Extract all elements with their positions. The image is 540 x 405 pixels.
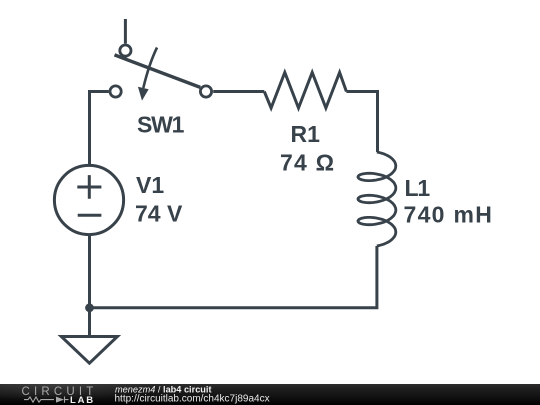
svg-text:74 V: 74 V: [135, 201, 183, 227]
voltage source V1 circle: [54, 165, 123, 234]
wire right terminal to resistor: [213, 90, 264, 93]
ground triangle: [61, 337, 117, 364]
svg-text:V1: V1: [136, 172, 164, 198]
svg-text:LAB: LAB: [70, 395, 95, 405]
V1 minus sign: [78, 214, 102, 217]
wire node to ground symbol: [88, 308, 91, 337]
switch SW1 motion arrow arc: [143, 48, 157, 89]
switch SW1 right terminal circle: [200, 86, 211, 97]
svg-text:SW1: SW1: [137, 112, 185, 138]
svg-text:L1: L1: [405, 175, 431, 201]
switch SW1 arrowhead: [138, 87, 149, 101]
wire V1 bottom to ground node: [88, 234, 91, 308]
svg-text:74 Ω: 74 Ω: [280, 150, 335, 176]
switch SW1 left terminal circle: [110, 86, 121, 97]
node junction dot: [85, 303, 94, 312]
wire resistor to right rail corner down to inductor: [346, 92, 377, 153]
resistor R1 zigzag: [264, 72, 346, 108]
svg-text:R1: R1: [291, 121, 321, 147]
wire switch top stub: [124, 19, 127, 44]
switch SW1 pivot terminal circle: [120, 45, 131, 56]
inductor L1 coil: [358, 152, 396, 246]
logo glow: [0, 369, 150, 401]
V1 plus sign: [77, 175, 101, 199]
wire left terminal to left rail corner: [90, 92, 109, 165]
switch SW1 blade: [115, 55, 201, 88]
svg-text:http://circuitlab.com/ch4kc7j8: http://circuitlab.com/ch4kc7j89a4cx: [115, 393, 270, 404]
svg-text:740 mH: 740 mH: [404, 202, 494, 228]
wire inductor bottom to bottom rail corner: [90, 246, 377, 308]
CircuitLab logo zigzag and diode glyph: [24, 397, 69, 403]
